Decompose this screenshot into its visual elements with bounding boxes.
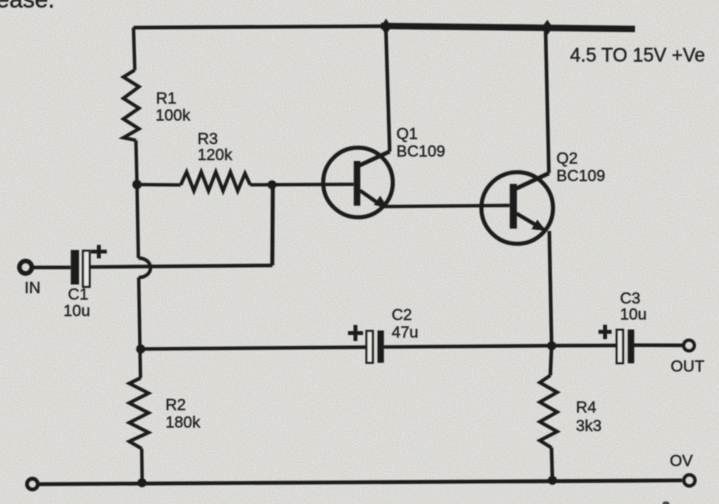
svg-text:R1: R1 [156,91,177,108]
svg-text:Q2: Q2 [556,150,577,167]
svg-text:10u: 10u [63,303,90,320]
svg-text:4.5 TO 15V +Ve: 4.5 TO 15V +Ve [570,46,705,67]
svg-text:BC109: BC109 [556,168,605,185]
svg-text:ease.: ease. [0,0,55,13]
svg-text:C1: C1 [68,287,89,304]
svg-text:C3: C3 [620,291,641,308]
svg-text:Q1: Q1 [396,126,417,143]
svg-text:10u: 10u [620,307,647,324]
svg-text:R3: R3 [198,131,219,148]
svg-text:100k: 100k [156,107,192,124]
svg-text:IN: IN [25,280,41,297]
svg-text:3k3: 3k3 [576,418,602,435]
svg-text:47u: 47u [392,325,419,342]
svg-text:180k: 180k [166,415,202,432]
svg-text:BC109: BC109 [396,144,445,161]
svg-text:120k: 120k [198,147,234,164]
svg-text:R2: R2 [166,397,187,414]
svg-text:C2: C2 [392,307,413,324]
svg-text:R4: R4 [576,399,597,416]
svg-text:OUT: OUT [671,358,705,375]
svg-text:OV: OV [670,453,693,470]
